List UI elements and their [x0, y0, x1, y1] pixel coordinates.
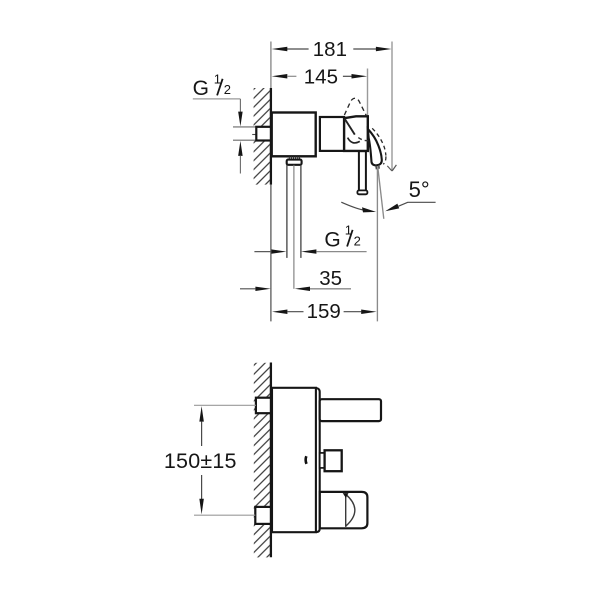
- outlet bulge arc: [346, 494, 355, 526]
- body cartridge ring: [320, 117, 344, 151]
- outlet wedge mark: [343, 493, 349, 498]
- body front view: [272, 388, 316, 532]
- handle hidden edge dashed: [358, 138, 369, 141]
- dimension 181 line right: [353, 48, 376, 50]
- inlet white gap in wall: [249, 128, 258, 140]
- temperature mark: [304, 456, 307, 464]
- dimension 145 line right: [343, 75, 352, 77]
- dimension 150 arrow down: [199, 499, 204, 515]
- dimension 150 line upper: [201, 421, 203, 446]
- dimension 145 stub: [287, 75, 296, 77]
- extension line 145: [367, 69, 369, 117]
- wall face line (wall section): [270, 88, 272, 185]
- mixer main body: [272, 113, 316, 157]
- outlet pipe line right: [300, 165, 302, 258]
- wall face extension line lower: [270, 185, 272, 322]
- dashed handle alternate position: [344, 98, 366, 115]
- outlet thread ribs: [289, 157, 299, 160]
- dimension G1/2 lower tail right: [316, 251, 366, 253]
- dimension 181 arrow right: [376, 47, 392, 52]
- hand shower pipe: [359, 151, 366, 191]
- dimension G1/2 lower arrow right: [301, 249, 316, 253]
- wall hatching (top view): [254, 88, 270, 185]
- outlet collar: [287, 160, 302, 165]
- dimension 35 tail left: [240, 288, 255, 290]
- svg-text:150±15: 150±15: [164, 449, 237, 473]
- lever dashed echo: [372, 128, 386, 155]
- dimension 181 line left: [287, 48, 309, 50]
- inlet extension line top: [233, 126, 256, 128]
- inlet connector through wall: [256, 127, 271, 141]
- handle block: [344, 116, 368, 151]
- svg-text:181: 181: [313, 38, 347, 61]
- angle arc left: [341, 202, 363, 210]
- dimension G1/2 lower arrow left: [271, 249, 286, 253]
- lever spout solid: [368, 129, 382, 165]
- outlet centreline: [293, 165, 295, 289]
- pipe end cap: [357, 190, 367, 194]
- angle leader: [398, 202, 436, 206]
- spout nozzle: [376, 165, 379, 169]
- outlet pipe line left: [286, 165, 288, 258]
- extension line top (150): [194, 404, 256, 406]
- dimension 150 line lower: [201, 475, 203, 499]
- label G1/2 leader underline: [193, 98, 241, 100]
- dimension 181 arrow left: [272, 47, 288, 52]
- svg-text:G: G: [193, 77, 209, 100]
- dimension 35 tail right: [310, 288, 351, 290]
- dimension 145 arrow left: [272, 74, 288, 79]
- svg-text:5°: 5°: [409, 177, 430, 202]
- G1/2 arrow tail lower: [239, 156, 241, 174]
- dimension 35 arrow right: [295, 287, 310, 291]
- extension line 181: [391, 42, 393, 171]
- angle arrow left: [362, 207, 376, 212]
- svg-text:2: 2: [224, 82, 231, 97]
- svg-text:35: 35: [319, 267, 342, 290]
- dimension 150 arrow up: [199, 406, 204, 422]
- inlet centre tick: [252, 134, 256, 136]
- lever bar front: [320, 399, 381, 421]
- mount square top: [256, 398, 271, 414]
- dimension G1/2 lower tail left: [254, 251, 271, 253]
- lever dashed tip: [383, 156, 386, 164]
- svg-text:159: 159: [307, 300, 341, 323]
- label G1/2 leader drop: [239, 99, 241, 112]
- dimension 35 arrow left: [255, 287, 270, 291]
- handle front edge: [345, 119, 355, 135]
- wall face line upper thin: [270, 42, 272, 89]
- G1/2 arrow up: [238, 141, 243, 156]
- dimension 159 arrow right: [361, 309, 376, 314]
- 5 degree slanted line: [378, 167, 384, 219]
- extension line bottom (150): [194, 514, 255, 516]
- svg-text:G: G: [324, 228, 340, 251]
- dimension 159 line right: [344, 311, 362, 313]
- shower outlet cylinder: [320, 492, 368, 528]
- svg-text:2: 2: [354, 234, 361, 249]
- hose outlet neck: [320, 453, 325, 468]
- svg-text:145: 145: [304, 65, 338, 88]
- wall face line (bottom): [270, 363, 272, 558]
- dimension 159 arrow left: [272, 309, 287, 314]
- dashed tip vee: [387, 165, 396, 171]
- wall hatching (bottom view): [254, 363, 270, 558]
- mount square bottom: [255, 507, 271, 524]
- G1/2 arrow down: [238, 112, 243, 127]
- outlet chord line: [345, 493, 347, 527]
- dimension 159 line left: [287, 311, 303, 313]
- dimension 145 arrow right: [352, 74, 368, 79]
- vertical reference line (159 right extension): [376, 169, 378, 322]
- body cover cap line: [316, 388, 320, 532]
- handle underside arc: [348, 138, 360, 143]
- inlet extension line bottom: [233, 139, 256, 141]
- angle arrow right: [385, 204, 399, 212]
- hose outlet square: [325, 450, 342, 471]
